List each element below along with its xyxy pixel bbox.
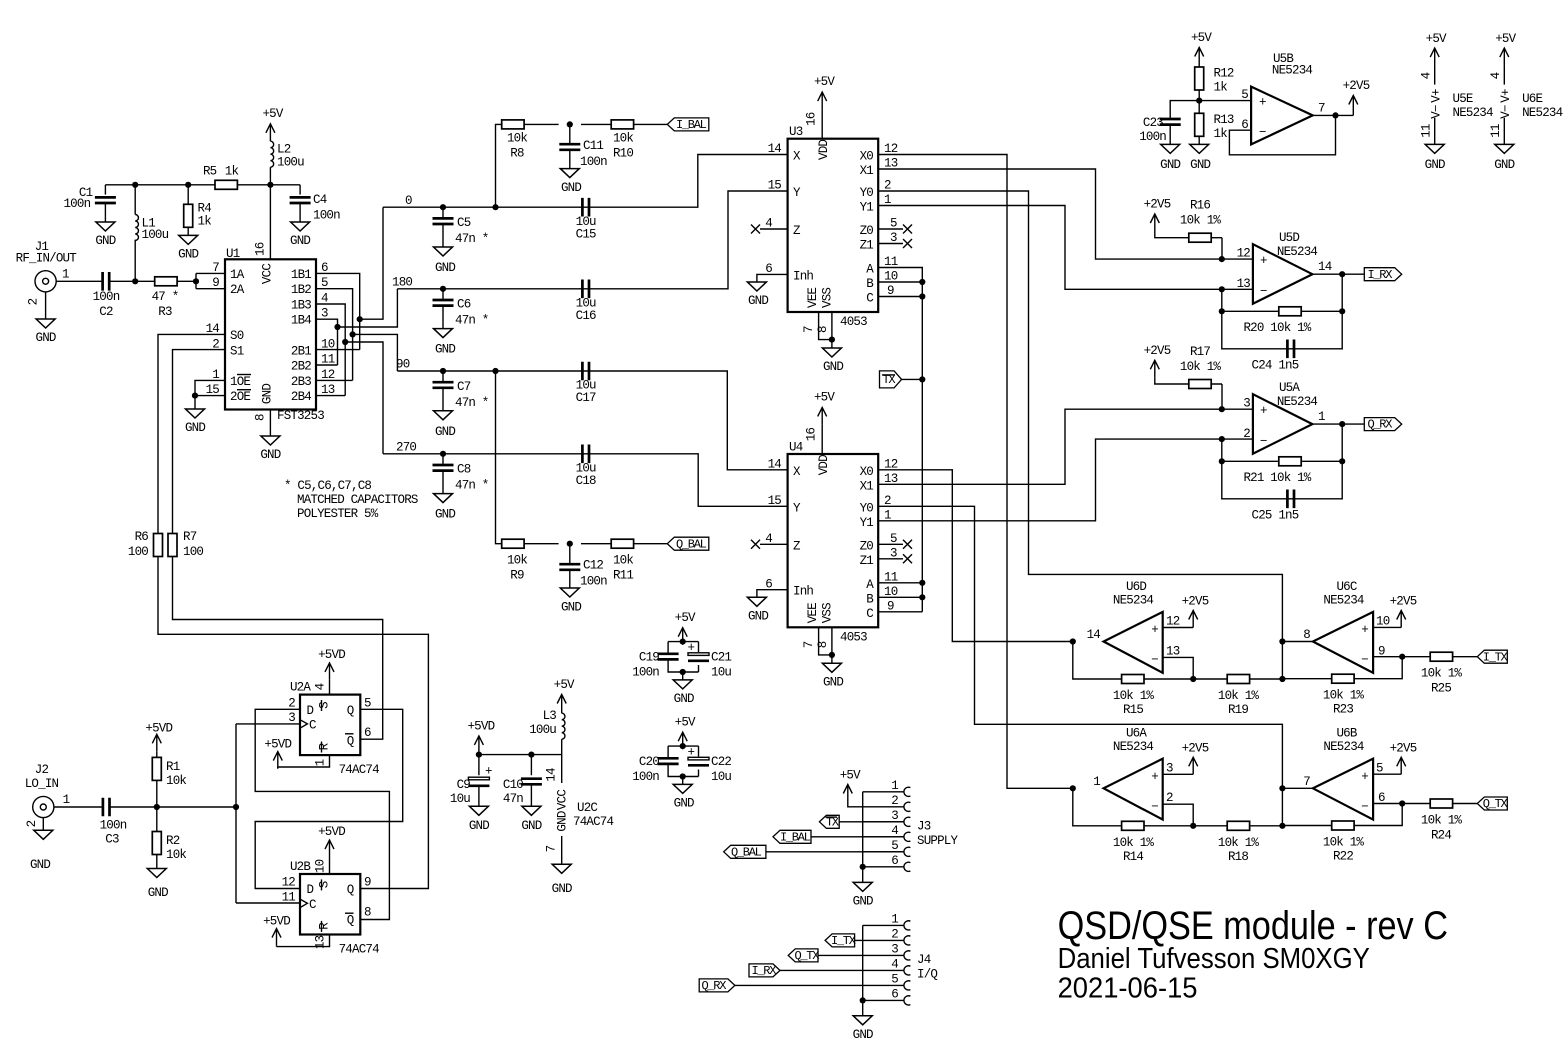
node U6A input [1070, 785, 1076, 791]
svg-text:S: S [318, 881, 332, 888]
svg-text:Q: Q [347, 914, 354, 928]
svg-text:R4: R4 [198, 202, 212, 216]
svg-text:11: 11 [884, 570, 898, 584]
svg-text:+5VD: +5VD [263, 915, 290, 929]
svg-text:1: 1 [62, 268, 69, 282]
svg-text:10k 1%: 10k 1% [1113, 836, 1155, 850]
svg-text:1: 1 [1093, 775, 1100, 789]
svg-text:0: 0 [405, 194, 412, 208]
svg-text:C4: C4 [313, 193, 327, 207]
svg-text:7: 7 [545, 845, 559, 852]
node 1B4/2B2 [334, 324, 340, 330]
svg-text:R2: R2 [166, 834, 180, 848]
node U6D fb [1190, 676, 1196, 682]
svg-text:2: 2 [891, 794, 898, 808]
wire C3 to clock riser [109, 806, 236, 808]
svg-text:I_BAL: I_BAL [676, 118, 707, 132]
svg-text:C16: C16 [576, 309, 596, 323]
svg-text:+2V5: +2V5 [1144, 344, 1171, 358]
ground below U2C [552, 864, 572, 896]
resistor R3 47 [152, 277, 179, 319]
capacitor C11 100n [559, 124, 607, 169]
wire U2B Sbar [329, 857, 331, 874]
node R9/C12 [567, 541, 573, 547]
svg-text:Y: Y [793, 186, 801, 200]
ground below C10 [521, 806, 541, 833]
resistor R20 10k 1% [1243, 307, 1311, 335]
ground below J2 [30, 830, 53, 872]
svg-text:GND: GND [30, 858, 50, 872]
ground below C5 [434, 247, 456, 275]
svg-text:4: 4 [891, 824, 898, 838]
svg-text:C3: C3 [105, 833, 119, 847]
svg-text:100n: 100n [63, 197, 90, 211]
ground below C7 [434, 411, 456, 439]
svg-text:−: − [1361, 653, 1368, 667]
wire U2A Rbar [278, 755, 330, 769]
svg-text:GND: GND [853, 895, 873, 909]
wire TX flag to bus [901, 378, 922, 380]
svg-text:VSS: VSS [821, 288, 835, 308]
svg-text:R: R [318, 922, 332, 930]
capacitor C5 47n [433, 207, 489, 247]
flag Q_RX at J4 [699, 979, 735, 993]
wire I_RX flag to J4 pin4 [780, 969, 904, 971]
svg-text:Z1: Z1 [860, 239, 874, 253]
ground below R13 [1190, 144, 1211, 172]
svg-text:+5V: +5V [675, 716, 696, 730]
svg-text:1: 1 [314, 759, 328, 766]
svg-text:3: 3 [1243, 397, 1250, 411]
svg-text:+: + [688, 746, 695, 760]
node C20 bottom [680, 773, 686, 779]
svg-text:2OE: 2OE [230, 390, 250, 404]
svg-text:Q: Q [347, 883, 354, 897]
svg-text:4: 4 [1420, 72, 1434, 79]
op-amp U5A NE5234 [1222, 381, 1325, 454]
svg-text:GND: GND [260, 448, 280, 462]
node U4 B [919, 594, 925, 600]
svg-text:13: 13 [1166, 644, 1180, 658]
node 270/C8 [440, 451, 446, 457]
node 0/R8 riser [492, 204, 498, 210]
svg-text:D: D [307, 704, 314, 718]
svg-text:4: 4 [314, 683, 328, 690]
svg-text:D: D [307, 883, 314, 897]
svg-text:180: 180 [392, 276, 412, 290]
svg-text:1: 1 [891, 779, 898, 793]
no-connect U3 Z0 [878, 225, 912, 234]
svg-text:2: 2 [25, 820, 39, 827]
svg-text:U1: U1 [226, 247, 240, 261]
node 90/C7 [440, 368, 446, 374]
svg-text:VCC: VCC [261, 264, 275, 284]
wire U6B input stub [1282, 788, 1313, 826]
capacitor C6 47n [433, 289, 489, 329]
resistor R15 10k 1% [1113, 675, 1155, 718]
svg-text:+: + [1260, 254, 1267, 268]
svg-text:GND: GND [561, 600, 581, 614]
op-amp U6D NE5234 (left pointing) [1087, 580, 1180, 673]
power +5VD above C9 [467, 720, 494, 753]
wire U6C + to +2V5 [1373, 626, 1401, 628]
svg-text:C17: C17 [576, 391, 596, 405]
wire Q_BAL flag to J3 pin5 [766, 851, 904, 853]
ground U3 Inh [747, 282, 768, 308]
svg-text:R6: R6 [135, 530, 149, 544]
svg-text:1: 1 [63, 793, 70, 807]
resistor R1 10k [152, 751, 186, 807]
svg-text:Q: Q [347, 734, 354, 748]
svg-text:L3: L3 [543, 709, 557, 723]
svg-text:+5V: +5V [814, 75, 835, 89]
svg-text:10u: 10u [450, 792, 470, 806]
svg-text:100n: 100n [632, 770, 659, 784]
node fb right [1339, 308, 1345, 314]
svg-text:4: 4 [1489, 72, 1503, 79]
svg-text:Q_TX: Q_TX [1483, 797, 1508, 811]
svg-text:U6C: U6C [1336, 580, 1356, 594]
svg-text:R12: R12 [1214, 67, 1234, 81]
svg-text:R15: R15 [1123, 703, 1143, 717]
wire 180 line [397, 191, 787, 289]
svg-text:+2V5: +2V5 [1343, 79, 1370, 93]
svg-text:I_BAL: I_BAL [780, 830, 811, 844]
IC U2A 74AC74 [290, 681, 379, 777]
resistor R25 10k 1% [1421, 652, 1463, 696]
svg-text:I_TX: I_TX [831, 934, 856, 948]
flag I_TX [1477, 650, 1507, 664]
svg-text:C25 1n5: C25 1n5 [1252, 509, 1299, 523]
op-amp U6A NE5234 (left pointing) [1093, 726, 1173, 819]
svg-text:GND: GND [1190, 158, 1210, 172]
svg-text:Z: Z [793, 539, 801, 553]
wire I_TX flag to J4 pin2 [855, 939, 905, 941]
svg-text:1k: 1k [225, 165, 239, 179]
capacitor C2 100n [93, 272, 120, 319]
node fb right U5A [1339, 458, 1345, 464]
svg-text:Y: Y [793, 501, 801, 515]
svg-text:VCC: VCC [556, 790, 570, 810]
svg-text:14: 14 [768, 142, 782, 156]
svg-text:1B3: 1B3 [291, 299, 311, 313]
flag Q_TX at J4 [788, 949, 819, 963]
wire R6 to U2B Q [158, 557, 428, 889]
svg-text:100: 100 [183, 545, 203, 559]
svg-text:2B4: 2B4 [291, 390, 311, 404]
svg-text:A: A [866, 578, 874, 592]
svg-text:+5VD: +5VD [318, 648, 345, 662]
node C19 top [680, 639, 686, 645]
wire U5A feedback R21 [1222, 424, 1342, 499]
svg-text:B: B [866, 277, 874, 291]
svg-text:GND: GND [178, 248, 198, 262]
svg-text:12: 12 [282, 876, 296, 890]
IC U3 4053 [788, 125, 879, 329]
pin numbers U4 [765, 428, 897, 649]
svg-text:+5V: +5V [262, 107, 283, 121]
resistor R18 10k 1% [1218, 821, 1260, 864]
wire +5VD rail to L3 [479, 753, 562, 775]
svg-text:NE5234: NE5234 [1323, 594, 1364, 608]
svg-text:10k 1%: 10k 1% [1323, 689, 1365, 703]
svg-text:Z: Z [793, 224, 801, 238]
svg-text:X1: X1 [860, 479, 874, 493]
svg-text:74AC74: 74AC74 [339, 942, 380, 956]
svg-text:7: 7 [802, 641, 816, 648]
svg-text:C7: C7 [457, 380, 471, 394]
svg-text:10k: 10k [613, 132, 633, 146]
svg-text:11: 11 [1420, 124, 1434, 138]
svg-text:10: 10 [1376, 615, 1390, 629]
svg-text:U3: U3 [789, 125, 803, 139]
wire J1 pin1 to C2 [56, 280, 103, 282]
capacitor C9 10u polarized [450, 765, 492, 807]
svg-text:1: 1 [1318, 410, 1325, 424]
svg-text:1: 1 [891, 912, 898, 926]
svg-text:GND: GND [1494, 158, 1514, 172]
svg-text:C22: C22 [711, 755, 731, 769]
no-connect U3 Z left [751, 225, 788, 234]
svg-text:4: 4 [891, 957, 898, 971]
svg-text:9: 9 [364, 876, 371, 890]
node clock riser [233, 804, 239, 810]
svg-text:270: 270 [396, 441, 416, 455]
svg-text:I_RX: I_RX [1368, 268, 1393, 282]
svg-text:10k: 10k [166, 848, 186, 862]
svg-text:5: 5 [1376, 761, 1383, 775]
svg-text:14: 14 [1087, 628, 1101, 642]
capacitor C12 100n [559, 544, 607, 589]
svg-text:9: 9 [212, 276, 219, 290]
power +5V above L3 [554, 678, 575, 712]
svg-text:C19: C19 [639, 651, 659, 665]
wire U1 GND pin8 [269, 410, 271, 437]
capacitor C25 1n5 [1252, 490, 1299, 523]
capacitor C3 100n [100, 798, 127, 847]
flag TX at J3 [819, 815, 839, 829]
node 1B2/2B3 [350, 331, 356, 337]
wire U2B Rbar [277, 935, 330, 947]
svg-text:Z1: Z1 [860, 554, 874, 568]
svg-text:R3: R3 [158, 305, 172, 319]
power +2V5 above R16 [1144, 198, 1171, 232]
svg-text:C6: C6 [457, 298, 471, 312]
resistor R24 10k 1% [1421, 799, 1463, 843]
svg-text:U5E: U5E [1453, 92, 1473, 106]
node J3 pin6/gnd [860, 864, 866, 870]
wire 0 riser to R8 row [496, 124, 668, 207]
svg-text:X: X [793, 465, 801, 479]
power +5VD above U2B [318, 825, 345, 857]
wire R12 node to U5B+ [1199, 100, 1251, 102]
wire U6A feedback row [1073, 788, 1283, 826]
node C19 bottom [680, 669, 686, 675]
svg-text:2B3: 2B3 [291, 375, 311, 389]
svg-text:+5V: +5V [675, 611, 696, 625]
svg-text:GND: GND [556, 811, 570, 831]
svg-text:11: 11 [282, 890, 296, 904]
wire U6D feedback row [1073, 642, 1283, 680]
node C20 top [680, 743, 686, 749]
flag Q_RX [1364, 418, 1401, 432]
svg-text:10: 10 [884, 585, 898, 599]
svg-text:R16: R16 [1190, 199, 1210, 213]
svg-text:R8: R8 [510, 147, 524, 161]
no-connect U3 Z1 [878, 239, 912, 248]
svg-text:100u: 100u [529, 723, 556, 737]
svg-text:90: 90 [396, 358, 410, 372]
capacitor C8 47n [433, 454, 489, 494]
pin numbers U2A [288, 683, 371, 766]
svg-text:10k 1%: 10k 1% [1180, 360, 1222, 374]
svg-text:L2: L2 [277, 143, 291, 157]
svg-text:1B1: 1B1 [291, 268, 311, 282]
svg-text:16: 16 [254, 242, 268, 256]
resistor R5 1k [203, 165, 239, 190]
node R8/C11 [567, 121, 573, 127]
svg-text:+2V5: +2V5 [1182, 741, 1209, 755]
svg-text:X1: X1 [860, 164, 874, 178]
svg-text:U5A: U5A [1279, 381, 1300, 395]
node R17/U5A+ [1219, 406, 1225, 412]
flag I_BAL at J3 [773, 830, 811, 844]
svg-text:Y0: Y0 [860, 186, 874, 200]
svg-text:* C5,C6,C7,C8: * C5,C6,C7,C8 [284, 479, 371, 493]
svg-text:+: + [1361, 623, 1368, 637]
wire U5A out to flag [1312, 423, 1364, 425]
svg-text:VDD: VDD [817, 455, 831, 475]
ground below C4 [290, 222, 310, 248]
svg-text:GND: GND [853, 1028, 873, 1042]
svg-text:10k: 10k [613, 554, 633, 568]
svg-text:1OE: 1OE [230, 375, 250, 389]
svg-text:GND: GND [674, 692, 694, 706]
op-amp U6C NE5234 (left pointing) [1303, 580, 1389, 673]
flag Q_TX [1477, 797, 1507, 811]
wire R7 to U2A Qbar [173, 557, 383, 740]
svg-text:+: + [1361, 770, 1368, 784]
resistor R23 10k 1% [1323, 674, 1365, 717]
wire I_BAL flag to J3 pin4 [811, 836, 904, 838]
svg-text:2021-06-15: 2021-06-15 [1058, 972, 1198, 1004]
wire U3 Y0 to U6C [878, 191, 1282, 642]
node 1B3/2B4 [342, 339, 348, 345]
ground below R4 [178, 235, 198, 261]
op-amp U5D NE5234 [1222, 231, 1332, 304]
svg-text:−: − [1151, 653, 1158, 667]
ground below OE [185, 409, 205, 435]
svg-text:6: 6 [891, 854, 898, 868]
svg-text:5: 5 [891, 972, 898, 986]
svg-text:9: 9 [887, 599, 894, 613]
ground below C12 [560, 588, 581, 614]
svg-text:Q_RX: Q_RX [1368, 418, 1393, 432]
svg-text:+: + [485, 765, 492, 779]
svg-text:1k: 1k [198, 215, 212, 229]
svg-text:R7: R7 [183, 530, 197, 544]
svg-text:V+: V+ [1499, 89, 1513, 103]
svg-text:1B2: 1B2 [291, 283, 311, 297]
svg-text:+5VD: +5VD [318, 825, 345, 839]
svg-text:3: 3 [891, 809, 898, 823]
power +2V5 at U5B out [1343, 79, 1370, 115]
svg-text:C: C [309, 898, 316, 912]
node rail/L2/VCC [267, 182, 273, 188]
wire +5V to J3 pin2 [848, 802, 904, 807]
svg-text:C21: C21 [711, 651, 731, 665]
wire U6D - to feedback [1163, 657, 1194, 679]
svg-text:−: − [1260, 285, 1267, 299]
node U6B input [1279, 785, 1285, 791]
svg-text:X0: X0 [860, 465, 874, 479]
svg-text:V−: V− [1430, 105, 1444, 119]
svg-text:R17: R17 [1190, 345, 1210, 359]
svg-text:U2C: U2C [577, 801, 597, 815]
svg-text:I_TX: I_TX [1483, 650, 1508, 664]
op-amp U6B NE5234 (left pointing) [1303, 726, 1385, 819]
svg-text:S: S [318, 702, 332, 709]
svg-text:+5V: +5V [814, 390, 835, 404]
ground below C20/C22 [673, 784, 694, 810]
svg-text:2: 2 [27, 298, 41, 305]
svg-text:GND: GND [435, 261, 455, 275]
svg-text:1k: 1k [1214, 127, 1228, 141]
svg-text:Inh: Inh [793, 269, 813, 283]
resistor R9 10k [502, 539, 528, 582]
capacitor C7 47n [433, 371, 489, 411]
wire U2A Sbar [329, 680, 331, 695]
ground below C1 [95, 222, 115, 248]
wire U4 Y1 to U5A- [878, 439, 1222, 521]
svg-text:GND: GND [561, 181, 581, 195]
resistor R22 10k 1% [1323, 821, 1365, 864]
svg-text:GND: GND [552, 882, 572, 896]
power +5VD above U2A [318, 648, 345, 680]
svg-text:10k 1%: 10k 1% [1218, 836, 1260, 850]
wire U6A - to feedback [1163, 804, 1194, 826]
pin numbers U3 [765, 112, 897, 333]
flag TX (inverted) [880, 371, 902, 388]
op-amp U5B NE5234 [1241, 52, 1325, 144]
ground U4 Inh [747, 597, 768, 623]
resistor R2 10k [152, 807, 186, 869]
ground below J3 [853, 882, 873, 908]
svg-text:+: + [1151, 770, 1158, 784]
svg-text:2A: 2A [230, 283, 245, 297]
svg-text:MATCHED CAPACITORS: MATCHED CAPACITORS [297, 493, 418, 507]
wire U1 1OE/2OE tie to ground [195, 380, 225, 409]
wire U6C input stub [1282, 642, 1313, 680]
svg-text:R1: R1 [166, 760, 180, 774]
wire 0 line [383, 155, 788, 208]
pin numbers U2B [282, 859, 371, 949]
svg-text:R23: R23 [1333, 703, 1353, 717]
svg-text:15: 15 [768, 179, 782, 193]
svg-text:47n: 47n [503, 792, 523, 806]
unit U2C VCC pin [545, 755, 614, 865]
capacitor C1 100n [63, 185, 115, 222]
svg-text:10k 1%: 10k 1% [1113, 689, 1155, 703]
svg-text:GND: GND [748, 294, 768, 308]
wire bus TX to U4 A/B/C [878, 379, 922, 611]
svg-text:R18: R18 [1228, 850, 1248, 864]
svg-text:3: 3 [288, 711, 295, 725]
flag Q_BAL at J3 [724, 845, 766, 859]
svg-text:GND: GND [1425, 158, 1445, 172]
power +2V5 above R17 [1144, 344, 1171, 378]
ground below C6 [434, 329, 456, 357]
